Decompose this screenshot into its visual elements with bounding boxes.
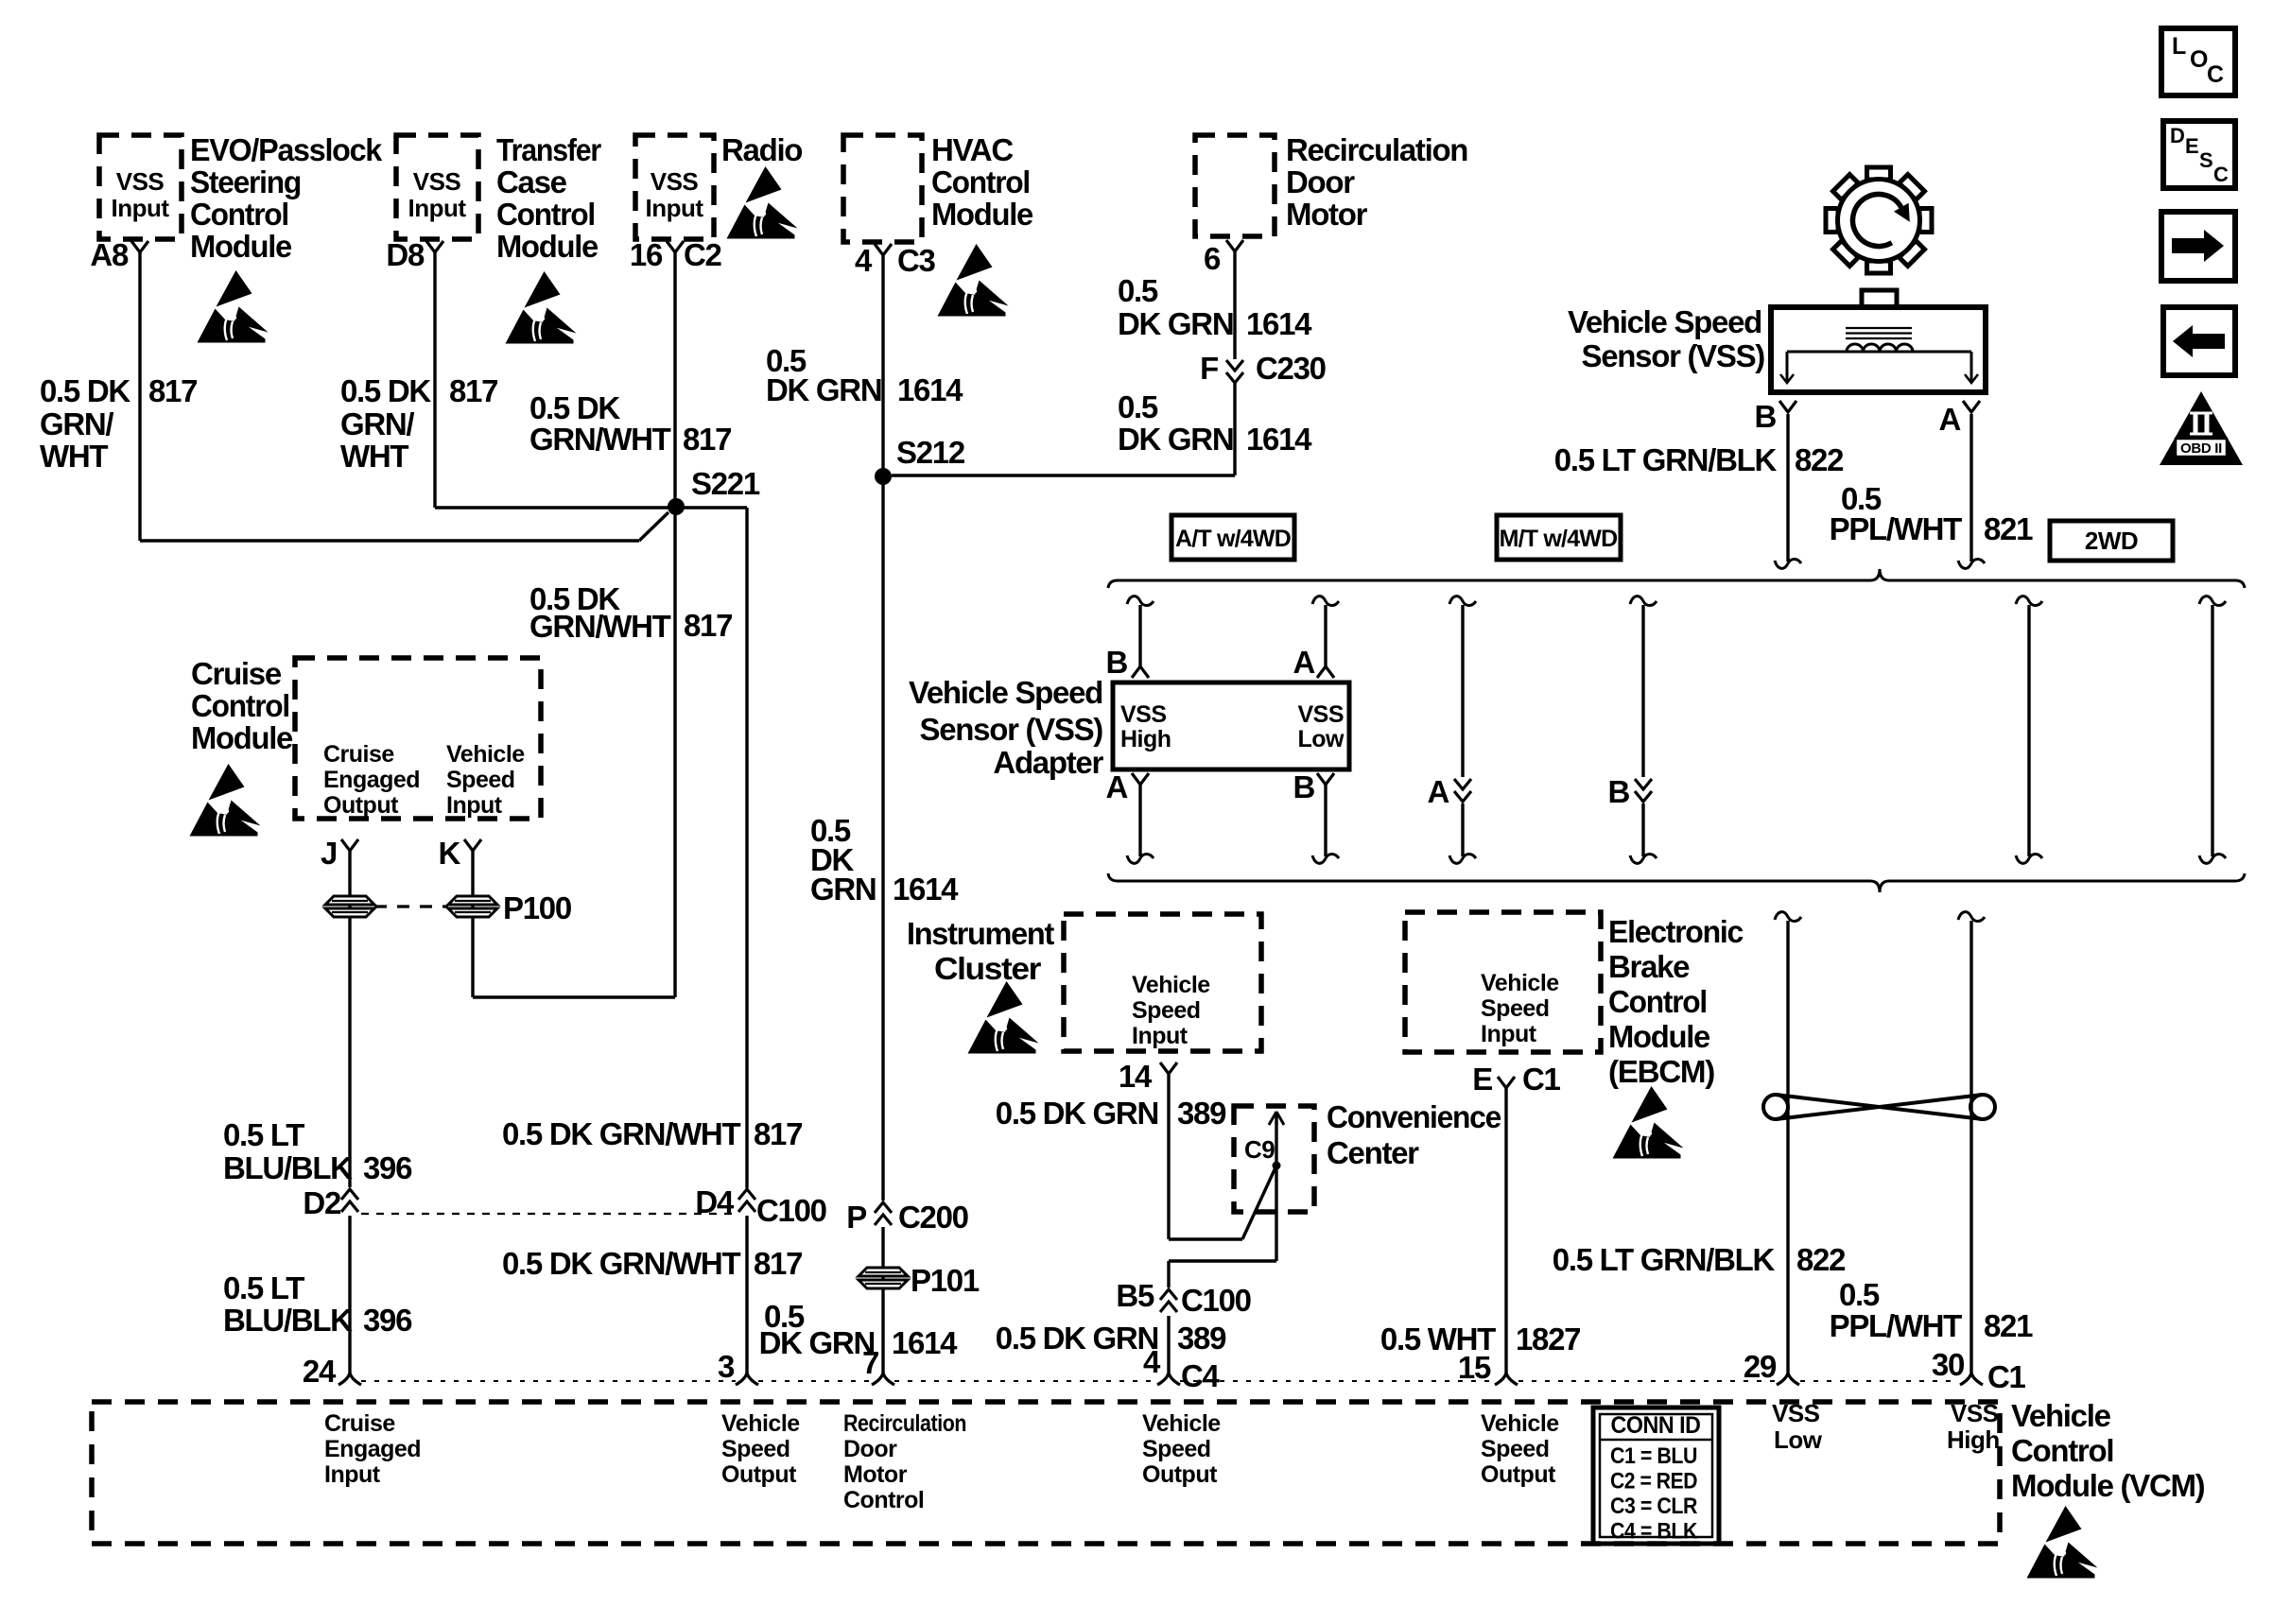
svg-text:VSS: VSS: [1772, 1399, 1820, 1427]
svg-text:M/T w/4WD: M/T w/4WD: [1500, 526, 1618, 552]
svg-text:1614: 1614: [892, 1325, 958, 1360]
svg-text:B: B: [1607, 774, 1629, 809]
svg-text:Vehicle: Vehicle: [1481, 970, 1559, 996]
svg-text:Sensor (VSS): Sensor (VSS): [1582, 338, 1765, 373]
svg-text:0.5 DK: 0.5 DK: [340, 373, 431, 408]
svg-text:C2 = RED: C2 = RED: [1610, 1469, 1697, 1494]
svg-text:High: High: [1947, 1425, 2000, 1454]
svg-text:Recirculation: Recirculation: [1286, 132, 1467, 167]
svg-text:4: 4: [855, 243, 873, 278]
svg-text:P100: P100: [503, 890, 571, 925]
svg-text:2WD: 2WD: [2085, 527, 2138, 555]
svg-text:WHT: WHT: [340, 439, 408, 474]
svg-text:A: A: [1105, 769, 1127, 804]
svg-text:Speed: Speed: [446, 767, 515, 793]
svg-text:821: 821: [1984, 511, 2033, 546]
svg-text:Speed: Speed: [1132, 997, 1201, 1024]
svg-text:Electronic: Electronic: [1608, 914, 1744, 949]
svg-text:E: E: [2185, 134, 2199, 158]
svg-text:GRN/WHT: GRN/WHT: [529, 422, 671, 457]
svg-text:Sensor (VSS): Sensor (VSS): [920, 712, 1103, 747]
svg-text:16: 16: [630, 237, 663, 272]
svg-text:B: B: [1105, 645, 1127, 680]
svg-text:A: A: [1938, 402, 1960, 437]
svg-text:822: 822: [1796, 1242, 1846, 1277]
svg-text:Speed: Speed: [1481, 1436, 1550, 1462]
svg-text:0.5 DK GRN: 0.5 DK GRN: [996, 1096, 1158, 1131]
svg-text:817: 817: [148, 373, 197, 408]
svg-text:C4 = BLK: C4 = BLK: [1610, 1519, 1698, 1545]
svg-text:Vehicle: Vehicle: [1481, 1410, 1559, 1437]
svg-text:C2: C2: [684, 237, 722, 272]
svg-text:Adapter: Adapter: [993, 745, 1103, 780]
svg-text:Control: Control: [843, 1487, 924, 1513]
svg-text:GRN/: GRN/: [340, 406, 414, 441]
svg-text:1827: 1827: [1516, 1322, 1580, 1356]
svg-text:30: 30: [1932, 1347, 1964, 1382]
svg-text:0.5: 0.5: [1839, 1277, 1880, 1312]
svg-text:Input: Input: [324, 1461, 381, 1488]
svg-text:C9: C9: [1244, 1135, 1275, 1164]
svg-text:DK GRN: DK GRN: [766, 372, 881, 407]
svg-text:DK GRN: DK GRN: [759, 1325, 875, 1360]
svg-text:Control: Control: [190, 197, 288, 232]
svg-text:Low: Low: [1774, 1425, 1823, 1454]
svg-text:Transfer: Transfer: [496, 132, 601, 167]
svg-text:BLU/BLK: BLU/BLK: [223, 1150, 353, 1185]
svg-text:1614: 1614: [1246, 422, 1312, 457]
svg-text:Cruise: Cruise: [191, 656, 282, 691]
svg-text:Center: Center: [1327, 1135, 1419, 1170]
svg-text:VSS: VSS: [651, 167, 699, 196]
svg-text:0.5 DK GRN: 0.5 DK GRN: [996, 1321, 1158, 1356]
svg-text:A8: A8: [90, 237, 129, 272]
svg-text:Module: Module: [191, 720, 293, 755]
svg-text:VSS: VSS: [116, 167, 165, 196]
svg-text:C200: C200: [898, 1200, 968, 1235]
svg-text:817: 817: [754, 1116, 802, 1151]
svg-text:Recirculation: Recirculation: [843, 1410, 966, 1437]
svg-text:Engaged: Engaged: [323, 767, 420, 793]
svg-text:(EBCM): (EBCM): [1608, 1054, 1714, 1089]
svg-text:Case: Case: [496, 164, 567, 199]
svg-text:24: 24: [303, 1354, 337, 1389]
svg-text:A: A: [1293, 645, 1314, 680]
svg-text:PPL/WHT: PPL/WHT: [1830, 511, 1963, 546]
svg-text:WHT: WHT: [40, 439, 108, 474]
svg-text:Module (VCM): Module (VCM): [2011, 1468, 2205, 1503]
svg-text:O: O: [2190, 46, 2208, 73]
svg-text:CONN ID: CONN ID: [1611, 1412, 1701, 1439]
svg-text:0.5 DK GRN/WHT: 0.5 DK GRN/WHT: [502, 1246, 740, 1281]
svg-text:817: 817: [684, 608, 732, 643]
svg-text:VSS: VSS: [1120, 701, 1167, 728]
svg-text:0.5: 0.5: [1118, 389, 1158, 424]
svg-text:F: F: [1200, 351, 1218, 386]
svg-text:P: P: [846, 1200, 866, 1235]
svg-text:S221: S221: [691, 466, 760, 501]
svg-text:BLU/BLK: BLU/BLK: [223, 1303, 353, 1338]
svg-text:DK GRN: DK GRN: [1118, 422, 1233, 457]
svg-text:821: 821: [1984, 1308, 2033, 1343]
svg-text:Control: Control: [191, 688, 289, 723]
svg-text:B: B: [1293, 769, 1314, 804]
svg-text:817: 817: [449, 373, 497, 408]
svg-text:K: K: [438, 836, 460, 871]
svg-text:Vehicle: Vehicle: [1132, 972, 1210, 998]
svg-text:Output: Output: [1142, 1461, 1218, 1488]
svg-text:Input: Input: [446, 792, 503, 819]
svg-text:VSS: VSS: [1297, 701, 1344, 728]
svg-text:Speed: Speed: [1142, 1436, 1211, 1462]
svg-text:396: 396: [363, 1150, 412, 1185]
svg-text:Vehicle: Vehicle: [1142, 1410, 1221, 1437]
svg-text:Control: Control: [2011, 1433, 2113, 1468]
svg-text:Door: Door: [1286, 164, 1355, 199]
svg-text:D: D: [2170, 124, 2185, 147]
svg-text:C1: C1: [1987, 1359, 2026, 1394]
svg-text:C100: C100: [756, 1193, 826, 1228]
svg-text:1614: 1614: [893, 872, 959, 907]
svg-text:0.5 LT: 0.5 LT: [223, 1117, 304, 1152]
svg-text:Control: Control: [1608, 984, 1707, 1019]
svg-text:Module: Module: [1608, 1019, 1710, 1054]
svg-text:4: 4: [1143, 1344, 1161, 1379]
svg-text:C4: C4: [1181, 1358, 1221, 1393]
svg-text:Speed: Speed: [721, 1436, 790, 1462]
svg-text:GRN: GRN: [810, 872, 876, 907]
svg-text:29: 29: [1744, 1349, 1777, 1384]
svg-text:0.5 DK: 0.5 DK: [529, 390, 620, 425]
svg-text:Steering: Steering: [190, 164, 301, 199]
svg-text:Output: Output: [1481, 1461, 1556, 1488]
svg-text:Motor: Motor: [1286, 197, 1368, 232]
svg-text:C3 = CLR: C3 = CLR: [1610, 1494, 1697, 1519]
svg-text:VSS: VSS: [413, 167, 461, 196]
svg-text:Output: Output: [721, 1461, 797, 1488]
svg-text:3: 3: [718, 1349, 735, 1384]
svg-text:Speed: Speed: [1481, 995, 1550, 1022]
svg-text:Convenience: Convenience: [1327, 1099, 1501, 1134]
svg-text:High: High: [1120, 726, 1171, 752]
svg-text:Module: Module: [931, 197, 1033, 232]
svg-text:Door: Door: [843, 1436, 897, 1462]
svg-text:C: C: [2207, 61, 2224, 88]
svg-text:C3: C3: [897, 243, 936, 278]
svg-text:Motor: Motor: [843, 1461, 908, 1488]
svg-text:Vehicle Speed: Vehicle Speed: [1568, 304, 1761, 339]
svg-text:HVAC: HVAC: [931, 132, 1013, 167]
svg-text:0.5: 0.5: [1118, 273, 1158, 308]
svg-text:A/T w/4WD: A/T w/4WD: [1175, 526, 1291, 552]
svg-text:0.5 LT GRN/BLK: 0.5 LT GRN/BLK: [1553, 1242, 1776, 1277]
svg-text:EVO/Passlock: EVO/Passlock: [190, 132, 383, 167]
svg-text:0.5 DK: 0.5 DK: [40, 373, 130, 408]
svg-text:0.5 LT GRN/BLK: 0.5 LT GRN/BLK: [1554, 442, 1778, 477]
svg-text:C100: C100: [1181, 1283, 1251, 1318]
svg-text:Module: Module: [496, 229, 599, 264]
svg-text:PPL/WHT: PPL/WHT: [1830, 1308, 1963, 1343]
svg-text:B5: B5: [1116, 1278, 1154, 1313]
svg-text:Module: Module: [190, 229, 292, 264]
svg-text:7: 7: [862, 1345, 878, 1380]
svg-text:E: E: [1472, 1062, 1492, 1097]
svg-text:396: 396: [363, 1303, 412, 1338]
svg-text:Low: Low: [1298, 726, 1345, 752]
svg-text:Input: Input: [1132, 1023, 1189, 1049]
svg-text:Input: Input: [111, 194, 169, 222]
svg-text:Vehicle: Vehicle: [446, 741, 525, 768]
svg-text:L: L: [2172, 33, 2186, 60]
svg-text:Engaged: Engaged: [324, 1436, 421, 1462]
svg-text:D2: D2: [303, 1185, 341, 1220]
svg-text:DK GRN: DK GRN: [1118, 306, 1233, 341]
svg-text:Input: Input: [645, 194, 703, 222]
svg-text:Cruise: Cruise: [323, 741, 394, 768]
svg-text:817: 817: [683, 422, 731, 457]
svg-text:389: 389: [1177, 1321, 1226, 1356]
svg-text:6: 6: [1204, 241, 1221, 276]
svg-text:Cruise: Cruise: [324, 1410, 395, 1437]
svg-text:C1: C1: [1522, 1062, 1561, 1097]
svg-text:GRN/: GRN/: [40, 406, 113, 441]
svg-text:Instrument: Instrument: [907, 916, 1054, 951]
svg-text:C: C: [2213, 163, 2229, 186]
svg-text:0.5 DK GRN/WHT: 0.5 DK GRN/WHT: [502, 1116, 740, 1151]
svg-text:Input: Input: [408, 194, 466, 222]
svg-text:1614: 1614: [1246, 306, 1312, 341]
svg-text:OBD II: OBD II: [2180, 441, 2222, 457]
svg-text:Output: Output: [323, 792, 399, 819]
svg-text:817: 817: [754, 1246, 802, 1281]
svg-text:15: 15: [1458, 1350, 1491, 1385]
svg-text:Radio: Radio: [721, 132, 802, 167]
svg-text:S212: S212: [896, 435, 965, 470]
svg-text:GRN/WHT: GRN/WHT: [529, 609, 671, 644]
svg-text:Vehicle: Vehicle: [721, 1410, 800, 1437]
svg-text:Vehicle Speed: Vehicle Speed: [909, 675, 1102, 710]
svg-text:Control: Control: [496, 197, 595, 232]
svg-text:Brake: Brake: [1608, 949, 1690, 984]
svg-text:Vehicle: Vehicle: [2011, 1398, 2111, 1433]
svg-text:0.5 LT: 0.5 LT: [223, 1270, 304, 1305]
svg-text:822: 822: [1795, 442, 1844, 477]
svg-text:B: B: [1754, 399, 1776, 434]
svg-text:389: 389: [1177, 1096, 1226, 1131]
svg-text:VSS: VSS: [1951, 1399, 1999, 1427]
svg-text:D8: D8: [386, 237, 425, 272]
svg-text:Cluster: Cluster: [934, 951, 1042, 986]
svg-text:A: A: [1427, 774, 1449, 809]
svg-text:14: 14: [1119, 1059, 1153, 1094]
svg-text:C230: C230: [1256, 351, 1326, 386]
svg-text:S: S: [2199, 148, 2213, 172]
svg-text:C1 = BLU: C1 = BLU: [1610, 1443, 1697, 1469]
svg-text:Input: Input: [1481, 1021, 1537, 1047]
svg-text:J: J: [321, 836, 337, 871]
svg-text:1614: 1614: [897, 372, 963, 407]
svg-text:Control: Control: [931, 164, 1030, 199]
svg-text:P101: P101: [911, 1263, 980, 1298]
